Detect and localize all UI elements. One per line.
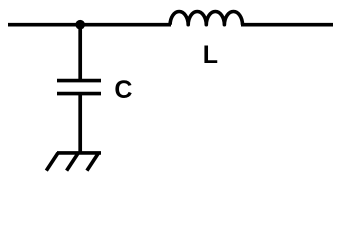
capacitor C bottom plate [57, 92, 101, 96]
ground: right hatch stroke [87, 153, 99, 171]
wire: top-right horizontal segment [241, 23, 333, 27]
inductor L coil [170, 11, 242, 24]
wire: vertical from node A to capacitor [78, 25, 82, 81]
capacitor C top plate [57, 79, 101, 83]
ground: left hatch stroke [46, 153, 58, 171]
wire: top-left horizontal segment [8, 23, 171, 27]
node A junction dot [75, 20, 85, 30]
svg-text:L: L [203, 41, 218, 69]
ground: middle hatch stroke [67, 153, 79, 171]
ground: horizontal bar [57, 151, 101, 155]
svg-text:C: C [114, 76, 132, 104]
wire: vertical from capacitor to ground [78, 94, 82, 153]
